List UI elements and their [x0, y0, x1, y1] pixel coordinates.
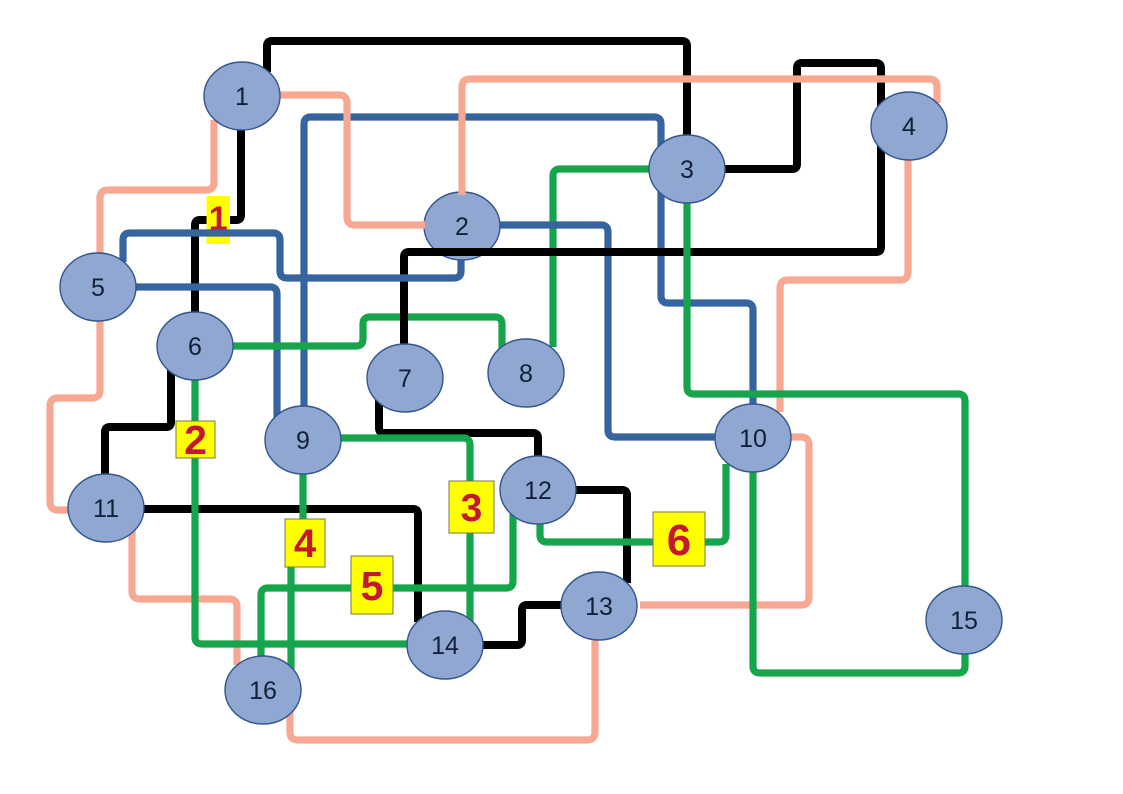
node 16: [225, 656, 301, 724]
wire black 14-13: [478, 605, 564, 645]
label 5: [351, 556, 393, 614]
svg-text:2: 2: [455, 213, 469, 241]
node 8: [488, 339, 564, 407]
wire black 11-14: [140, 509, 418, 622]
svg-text:3: 3: [461, 487, 483, 530]
wire green 9-14 under3: [338, 438, 470, 623]
node 13: [561, 572, 637, 640]
wire black 1-6: [195, 126, 241, 316]
svg-text:4: 4: [294, 522, 317, 566]
svg-text:3: 3: [680, 156, 694, 184]
svg-text:6: 6: [188, 333, 202, 361]
node 7: [367, 344, 443, 412]
node 11: [68, 474, 144, 542]
wire green 3-8: [553, 169, 652, 347]
wire green 6-14 over2: [195, 376, 411, 644]
wire pink 13-16: [290, 637, 595, 740]
wire black 1-3: [267, 41, 687, 137]
svg-text:2: 2: [184, 417, 207, 463]
svg-text:14: 14: [431, 632, 459, 660]
node 6: [157, 312, 233, 380]
wire pink 1-2: [278, 95, 425, 225]
wire green 3-15: [687, 199, 965, 590]
wire green 12-10 over6: [540, 464, 726, 542]
wire black 6-11: [105, 368, 171, 478]
label 1: [207, 196, 231, 244]
label 4: [285, 519, 325, 567]
wire blue 2-10: [499, 225, 717, 437]
svg-text:7: 7: [398, 365, 412, 393]
wire blue 5-9: [133, 287, 277, 419]
wire pink 4-10: [780, 157, 908, 412]
node 15: [926, 586, 1002, 654]
wire blue 9-10: [304, 117, 753, 412]
node 4: [871, 92, 947, 160]
wire pink 10-13: [640, 437, 809, 605]
svg-text:4: 4: [902, 113, 916, 141]
node 10: [715, 404, 791, 472]
node 14: [407, 611, 483, 679]
label 6: [653, 512, 705, 566]
wire black 12-13: [572, 490, 627, 583]
svg-text:9: 9: [296, 427, 310, 455]
wire green 10-15: [753, 468, 965, 673]
wire green 9-16 under4: [291, 470, 303, 669]
node 5: [60, 253, 136, 321]
svg-text:15: 15: [950, 607, 978, 635]
wire pink 5-11: [50, 316, 100, 510]
node 9: [265, 406, 341, 474]
label 3: [449, 481, 494, 533]
svg-text:6: 6: [667, 516, 691, 565]
svg-text:13: 13: [585, 593, 613, 621]
svg-text:11: 11: [93, 495, 119, 523]
node 12: [500, 456, 576, 524]
wire green 6-8: [230, 317, 502, 351]
svg-text:5: 5: [361, 563, 384, 609]
svg-text:8: 8: [519, 360, 533, 388]
wire pink 2-4: [462, 79, 937, 195]
wire green 12-16 over5: [261, 514, 513, 661]
wire black 3-7: [404, 63, 881, 345]
node 1: [204, 62, 280, 130]
wire pink 11-16: [132, 530, 237, 665]
wire pink 1-5: [100, 120, 214, 258]
svg-text:16: 16: [249, 677, 277, 705]
svg-text:10: 10: [739, 425, 767, 453]
svg-text:1: 1: [235, 83, 249, 111]
label 2: [176, 417, 215, 463]
svg-text:5: 5: [91, 274, 105, 302]
node 3: [649, 135, 725, 203]
svg-text:12: 12: [524, 477, 552, 505]
wire black 7-12: [379, 400, 538, 459]
wire blue 5-2 over1: [123, 233, 461, 278]
node 2: [424, 192, 500, 260]
